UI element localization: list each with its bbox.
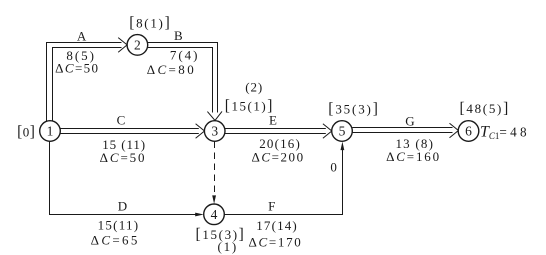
svg-text:5: 5 [339, 124, 346, 139]
svg-text:3: 3 [211, 124, 218, 139]
svg-text:1: 1 [47, 124, 54, 139]
node 2 [127, 35, 148, 56]
svg-text:17(14): 17(14) [256, 218, 297, 233]
svg-text:15(11): 15(11) [98, 217, 138, 232]
svg-text:A: A [77, 29, 87, 44]
svg-text:ΔC=80: ΔC=80 [147, 62, 194, 77]
node 5 [332, 121, 353, 142]
node 1 [40, 121, 61, 142]
svg-text:[0]: [0] [17, 124, 35, 141]
arrow C (1 to 3) double line [60, 124, 204, 139]
arrow E (3 to 5) double line [225, 124, 332, 139]
svg-text:ΔC=50: ΔC=50 [55, 61, 98, 76]
svg-text:2: 2 [134, 38, 141, 53]
arrow F (4 to 5) single line [224, 142, 344, 215]
node 3 [204, 121, 225, 142]
svg-text:[35(3)]: [35(3)] [328, 100, 378, 117]
svg-text:6: 6 [465, 124, 472, 139]
svg-text:4: 4 [211, 207, 218, 222]
svg-text:F: F [268, 198, 275, 213]
svg-text:7(4): 7(4) [170, 47, 198, 62]
svg-text:[48(5)]: [48(5)] [460, 100, 509, 117]
svg-text:0: 0 [330, 160, 337, 175]
arrow G (5 to 6) double line [352, 123, 458, 138]
svg-text:ΔC=50: ΔC=50 [100, 150, 145, 165]
svg-text:[15(1)]: [15(1)] [225, 98, 273, 115]
svg-text:C: C [117, 113, 126, 128]
node 6 [458, 121, 479, 142]
svg-text:B: B [174, 28, 183, 43]
svg-text:D: D [118, 199, 127, 214]
arrow B (2 to 3) double line [148, 43, 222, 121]
svg-text:(2): (2) [245, 80, 262, 95]
dummy arrow (3 to 4) dashed [212, 142, 216, 204]
arrow A (1 to 2) double line [47, 38, 128, 123]
svg-text:TC1=48: TC1=48 [480, 124, 527, 142]
svg-text:G: G [405, 114, 414, 129]
svg-text:ΔC=65: ΔC=65 [91, 233, 138, 248]
svg-text:E: E [269, 112, 277, 127]
node 4 [204, 204, 225, 225]
arrow D (1 to 4) single line [50, 141, 204, 216]
svg-text:(1): (1) [218, 239, 237, 254]
svg-text:[8(1)]: [8(1)] [129, 15, 170, 32]
